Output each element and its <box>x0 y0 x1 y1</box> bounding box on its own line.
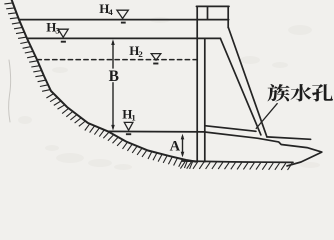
label B <box>108 69 118 83</box>
svg-text:3: 3 <box>55 25 60 35</box>
svg-text:A: A <box>170 139 181 155</box>
H2 symbol under-dash <box>153 63 158 65</box>
svg-text:1: 1 <box>131 112 135 122</box>
water level symbol H4 <box>117 10 128 18</box>
water line H3 / dam crest <box>27 37 220 39</box>
tower divider <box>207 6 209 19</box>
downstream face inner line <box>220 38 261 134</box>
bank hatching <box>4 3 192 169</box>
drain hole label char 2 (shui) <box>290 84 311 101</box>
downstream face outer line <box>228 27 267 136</box>
svg-text:4: 4 <box>108 7 113 17</box>
svg-text:2: 2 <box>138 49 143 59</box>
outlet pipe top line <box>205 126 256 132</box>
water level symbol H1 <box>124 122 133 130</box>
faint bank pencil mark <box>9 60 11 122</box>
outlet channel top line <box>267 137 311 139</box>
water level symbol H2 <box>151 54 161 61</box>
dimension arrow A <box>181 134 185 158</box>
water line H2 (dashed) <box>37 59 196 61</box>
H3 symbol under-dash <box>61 41 66 43</box>
outlet channel bottom / end sill <box>205 132 322 166</box>
dimension arrow B <box>111 39 115 130</box>
H4 symbol under-dash <box>121 22 126 24</box>
drain hole label char 1 (zu) <box>268 84 290 101</box>
bank slope curve <box>11 0 196 162</box>
ground hatching <box>180 162 292 170</box>
H1 symbol under-dash <box>126 133 131 135</box>
dam tower top <box>196 5 229 7</box>
shaft right wall <box>204 38 206 161</box>
ground line <box>182 161 293 162</box>
water line H4 <box>19 19 229 21</box>
dam upstream wall <box>196 6 198 161</box>
leader line to drain hole <box>256 104 277 129</box>
svg-text:B: B <box>109 68 119 85</box>
water line H1 <box>108 130 205 133</box>
tower right wall <box>227 6 229 27</box>
drain hole label char 3 (kong) <box>312 84 333 101</box>
water level symbol H3 <box>58 29 68 37</box>
